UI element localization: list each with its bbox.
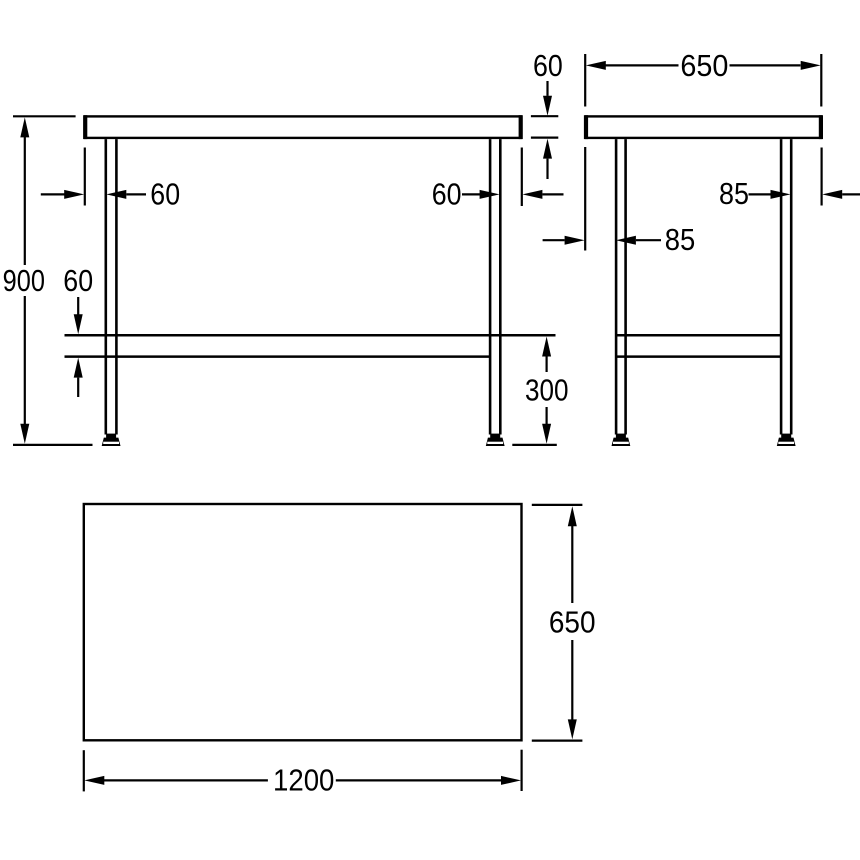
svg-text:60: 60	[432, 178, 462, 212]
dimension 1200 (plan width)	[84, 750, 522, 798]
front left foot	[102, 434, 121, 446]
svg-text:60: 60	[150, 178, 180, 212]
front left leg	[106, 139, 117, 434]
front right leg	[490, 139, 500, 434]
svg-text:60: 60	[533, 49, 563, 83]
side right foot	[777, 434, 796, 446]
dimension 60 (front right top overhang)	[432, 148, 564, 212]
svg-text:650: 650	[680, 49, 728, 83]
dimension 60 (front left top overhang)	[41, 148, 180, 212]
front view tabletop	[85, 115, 521, 139]
plan view tabletop outline	[84, 504, 522, 740]
side right leg	[781, 139, 791, 434]
svg-text:1200: 1200	[273, 764, 334, 798]
front right foot	[486, 434, 505, 446]
dimension 900 (front overall height)	[3, 116, 93, 445]
dimension 650 (side tabletop depth)	[585, 49, 821, 107]
side left leg	[616, 139, 626, 434]
front undershelf top edge (extends right as extension line for 300 dim)	[65, 334, 556, 337]
side undershelf top edge	[617, 334, 780, 337]
svg-text:85: 85	[665, 223, 696, 257]
side left foot	[612, 434, 631, 446]
dimension 60 (front undershelf thickness)	[63, 264, 93, 397]
svg-text:60: 60	[63, 264, 93, 298]
side view tabletop	[586, 115, 821, 139]
dimension 85 (side right leg inset)	[719, 148, 860, 212]
side undershelf bottom edge	[617, 355, 780, 358]
svg-text:85: 85	[719, 177, 749, 211]
svg-text:900: 900	[3, 264, 45, 298]
svg-text:300: 300	[525, 373, 569, 407]
svg-text:650: 650	[549, 606, 596, 640]
dimension 300 (undershelf height)	[512, 337, 568, 445]
dimension 85 (side left leg inset)	[543, 147, 696, 257]
dimension 60 (side tabletop thickness)	[531, 49, 563, 179]
front undershelf bottom edge	[65, 355, 491, 358]
dimension 650 (plan depth)	[532, 505, 596, 741]
